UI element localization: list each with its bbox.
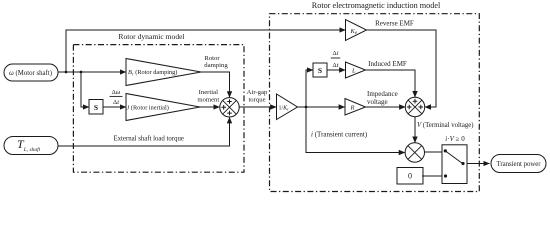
svg-text:J (Rotor inertial): J (Rotor inertial) [127,105,169,112]
svg-text:Inertial: Inertial [199,89,218,96]
svg-text:voltage: voltage [367,98,388,106]
svg-text:TL, shaft: TL, shaft [17,137,41,153]
svg-text:Ke: Ke [350,28,358,36]
svg-text:i (Transient current): i (Transient current) [311,131,368,139]
svg-text:Impedance: Impedance [367,90,398,98]
svg-text:Δt: Δt [333,62,339,69]
svg-text:Reverse EMF: Reverse EMF [375,20,414,28]
svg-text:0: 0 [408,172,412,181]
svg-text:1/Kt: 1/Kt [279,105,290,111]
svg-text:i·V ≥ 0: i·V ≥ 0 [445,135,465,143]
svg-text:Rotor electromagnetic inductio: Rotor electromagnetic induction model [312,1,441,10]
svg-text:Induced EMF: Induced EMF [368,60,407,68]
svg-text:V (Terminal voltage): V (Terminal voltage) [417,122,474,129]
svg-text:External shaft load torque: External shaft load torque [113,136,183,143]
svg-text:S: S [94,103,98,112]
svg-text:Transient power: Transient power [496,161,541,168]
svg-text:Air-gap: Air-gap [247,89,268,96]
svg-text:S: S [318,66,322,75]
svg-text:Δω: Δω [112,89,121,96]
svg-text:moment: moment [197,96,219,103]
svg-text:damping: damping [204,62,228,69]
svg-text:Br (Rotor damping): Br (Rotor damping) [128,69,177,76]
svg-text:R: R [350,105,355,112]
svg-text:Rotor: Rotor [204,55,220,62]
svg-text:Rotor dynamic model: Rotor dynamic model [118,32,184,41]
svg-text:ω (Motor shaft): ω (Motor shaft) [9,70,52,77]
svg-text:Δt: Δt [113,99,119,106]
svg-text:L: L [351,68,356,75]
svg-text:torque: torque [248,96,265,103]
svg-text:Δi: Δi [333,50,339,57]
